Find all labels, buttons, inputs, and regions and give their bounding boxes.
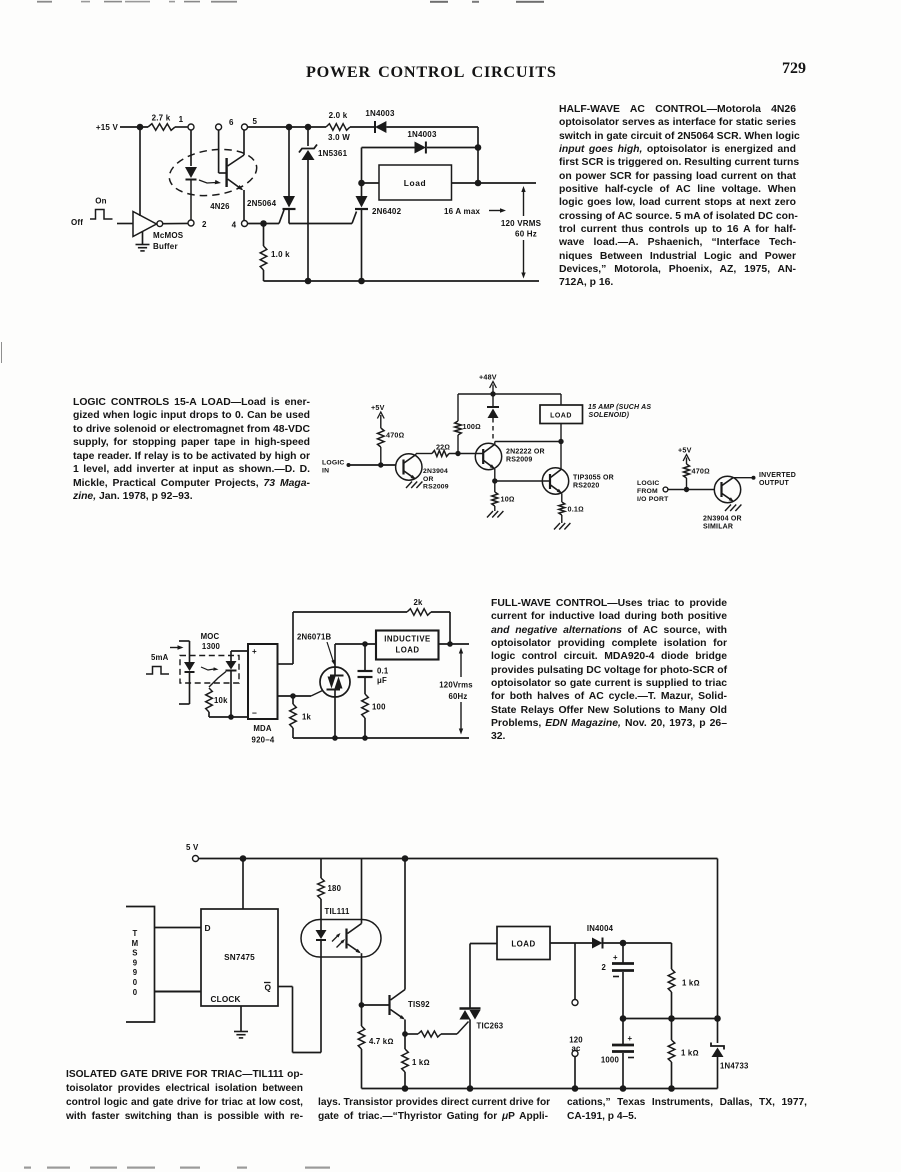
resistor 1.0 k [260,224,290,282]
svg-text:TIC263: TIC263 [477,1022,504,1031]
svg-text:TIS92: TIS92 [408,1000,430,1009]
svg-text:+5V: +5V [371,403,385,412]
svg-text:LOAD: LOAD [395,646,419,655]
120 ac source terminals [572,943,578,1089]
optical arrow MOC1300 [201,667,219,671]
capacitor 2 (filter) [601,943,634,1019]
Q-bar wire path [278,987,321,1053]
svg-text:15 AMP (SUCH AS: 15 AMP (SUCH AS [588,404,651,411]
label 120 VRMS 60 Hz [501,219,542,239]
input bracket wires [179,641,190,704]
wire to diode [350,126,374,128]
svg-text:1000: 1000 [601,1056,620,1065]
node triac bottom rail [332,735,338,741]
svg-text:LOGIC: LOGIC [637,480,660,487]
input terminal dot [347,463,351,467]
svg-text:2N6071B: 2N6071B [297,633,332,642]
svg-text:+: + [613,953,618,962]
photo-SCR of MOC1300 [209,651,237,717]
svg-text:ac: ac [571,1044,581,1053]
svg-text:2.7 k: 2.7 k [152,114,171,123]
label 5mA [151,653,169,662]
wire load node to TIP3055 collector [560,442,562,470]
svg-text:−: − [252,708,257,718]
label TIL111 [325,907,351,916]
svg-text:2N3904 OR: 2N3904 OR [703,516,742,523]
TIL111 package outline [301,920,381,958]
pin 2 terminal of 4N26 [188,220,207,229]
node bottom rail TIC263 [467,1085,474,1092]
wire MDA lower output to triac gate [278,691,323,697]
svg-text:LOAD: LOAD [511,940,535,949]
clamp diode at +48V [487,394,499,442]
label 120 ac [569,1036,583,1054]
phototransistor TIL111 [347,924,362,954]
node 10 ohm junction [492,478,497,483]
pin 6 terminal (base) [216,118,234,130]
wire 2N2222 collector to load node [495,441,561,443]
wire TIS92 emitter down [404,1020,406,1035]
label Off [71,218,83,227]
node bottom rail 2N6402 cathode [358,278,365,285]
label LOGIC IN [322,460,345,475]
svg-text:2N3904: 2N3904 [423,468,448,475]
node 470 ohm junction [378,462,383,467]
resistor 470 ohm (inverter stage) [684,464,710,490]
resistor 1 kohm (TIS92 emitter) [402,1034,430,1089]
svg-text:OUTPUT: OUTPUT [759,480,790,487]
label 2N6071B with pointer [297,633,335,666]
svg-text:FROM: FROM [637,488,658,495]
svg-text:RS2020: RS2020 [573,483,600,490]
node bottom rail cap1000 [620,1085,627,1092]
resistor 1 kohm (upper right) [668,969,699,1019]
optical coupling arrow [199,180,221,184]
label +15 V supply [96,123,119,132]
svg-text:4: 4 [232,221,237,230]
node 100 ohm junction [455,451,460,456]
svg-text:120 VRMS: 120 VRMS [501,219,542,228]
svg-text:McMOS: McMOS [153,231,184,240]
wire emitter down [361,953,363,1005]
wire pin4 to gate node [248,223,280,225]
bottom rail circuit1 [264,280,540,282]
wire 10k to MDA minus [209,716,248,718]
scan artifact dashes top edge [0,0,901,8]
text block: ISOLATED GATE DRIVE col 2 [318,1096,548,1124]
wire SCR anode to MDA plus [231,650,248,652]
label TIC263 [477,1022,504,1031]
svg-text:5 V: 5 V [186,843,199,852]
svg-text:CLOCK: CLOCK [211,995,241,1004]
dashed package ellipse 4N26 [166,144,259,201]
svg-text:1N4733: 1N4733 [720,1062,749,1071]
svg-text:+5V: +5V [678,446,692,455]
resistor 4.7 kohm [358,1005,393,1089]
label MOC 1300 [201,632,221,651]
scan artifact dashes bottom edge [0,1165,901,1172]
text block: ISOLATED GATE DRIVE col 1 [66,1068,303,1124]
SCR 2N6402 [355,180,402,281]
label TIP3055 OR RS2020 [573,475,614,490]
svg-text:9: 9 [133,968,138,977]
svg-text:Load: Load [404,178,426,188]
node top rail (2N5064 anode) [286,124,293,131]
svg-text:INDUCTIVE: INDUCTIVE [384,635,431,644]
svg-text:2N2222 OR: 2N2222 OR [506,449,545,456]
svg-text:SIMILAR: SIMILAR [703,524,733,531]
5V terminal [193,856,199,862]
svg-text:180: 180 [328,884,342,893]
node pin4 / 1k junction [260,220,267,227]
resistor 1 kohm (lower right) [668,1019,698,1089]
LED of optoisolator 4N26 [185,167,197,220]
node bottom rail zener [305,278,312,285]
svg-text:+48V: +48V [479,373,497,382]
page header title [306,63,552,82]
wire to TIS92 base [362,1004,390,1006]
svg-text:+15 V: +15 V [96,123,119,132]
node diode cathode [620,940,627,947]
label 1N4733 [720,1062,749,1071]
svg-text:3.0 W: 3.0 W [328,133,350,142]
svg-text:T: T [133,929,138,938]
resistor 100 ohm [455,394,481,454]
node mid wire zener [714,1015,721,1022]
mid horizontal wire [623,1018,718,1020]
LED of TIL111 [316,920,327,1053]
svg-text:1.0 k: 1.0 k [271,250,290,259]
text block: ISOLATED GATE DRIVE col 3 [567,1096,807,1124]
svg-text:+: + [628,1034,633,1043]
transistor TIS92 [390,990,406,1020]
svg-text:16 A max: 16 A max [444,207,480,216]
wire top rail pin5 to resistor [248,126,327,128]
inverter output bubble [157,221,163,227]
label MDA 920-4 [252,724,275,745]
svg-text:Q: Q [265,983,272,993]
svg-text:100Ω: 100Ω [463,422,481,431]
diode IN4004 [587,924,623,949]
input current arrow [170,645,184,649]
svg-text:LOAD: LOAD [550,413,572,420]
node 2N6402 anode / load left [358,180,365,187]
svg-text:5mA: 5mA [151,653,169,662]
node mid wire cap [620,1015,627,1022]
svg-text:0: 0 [133,988,138,997]
diode 1N4003 (top, pointing left) [365,109,395,133]
resistor 180 [318,859,342,920]
page number 729 [782,60,806,78]
capacitor 1000 (filter) [601,1019,634,1089]
bottom rail circuit4 [362,1088,718,1090]
resistor 22 ohm [432,443,450,457]
text block: FULL-WAVE CONTROL description [491,597,727,744]
wire TIS92 collector to rail [404,859,406,990]
wire anode node to load [362,182,380,184]
transistor 2N3904 (inverter) [714,476,740,502]
wire +15V to resistor [120,126,148,128]
node bottom rail 1k lower [668,1085,675,1092]
SN7475 latch box [201,909,278,1006]
node photo-SCR cathode [228,714,234,720]
resistor 2.7 k [148,114,175,131]
Load box [379,165,452,200]
ground below SN7475 [234,1006,248,1038]
label 16 A max with arrow [444,207,506,216]
resistor 0.1 ohm with ground [554,493,584,529]
node bottom rail 1k [402,1085,409,1092]
node rail TIS92 collector [402,855,409,862]
svg-text:0: 0 [133,978,138,987]
wire TIC263 to LOAD [470,943,497,945]
wire pin1 to LED anode [190,130,192,166]
wire 2N2222 emitter to base TIP3055 [495,469,550,481]
wire 22ohm to 2N2222 base [449,453,483,455]
LOAD box (relay) [540,405,583,424]
svg-text:2N6402: 2N6402 [372,207,402,216]
node base junction [684,487,689,492]
svg-text:RS2009: RS2009 [423,484,449,491]
INDUCTIVE LOAD box [376,631,439,660]
svg-text:1N4003: 1N4003 [365,109,395,118]
label INVERTED OUTPUT [759,472,796,487]
gate resistor to TIC263 [405,1022,469,1038]
node mid wire 1k [668,1015,675,1022]
svg-text:S: S [132,949,137,958]
node emitter/1k junction [402,1031,408,1037]
wire +48 rail [458,393,561,395]
diode 1N4003 (second, pointing right) [362,130,479,180]
wire 2k to load right [431,612,450,644]
label Q-bar output [264,983,272,993]
label TMS9900 vertical [132,929,139,997]
pin 4 terminal (emitter) [232,221,248,230]
triac 2N6071B [320,644,350,738]
node triac MT2 / load wire [335,641,376,647]
node junction +15V rail [137,124,144,131]
LOAD box circuit4 [497,927,550,960]
node load right [475,180,482,187]
label McMOS Buffer [153,231,184,251]
MDA 920-4 bridge box [248,644,278,719]
light arrows TIL111 [332,933,345,948]
label 5 V [186,843,199,852]
svg-text:1300: 1300 [202,642,221,651]
svg-text:2: 2 [202,220,207,229]
wire input to buffer [117,223,133,225]
resistor 10 ohm with ground [487,481,515,518]
svg-text:+: + [252,647,257,656]
svg-text:On: On [95,197,107,206]
triac TIC263 [460,944,481,1089]
transistor 2N2222 Q2 [475,442,501,470]
SCR 2N5064 [247,127,296,224]
label 120Vrms 60Hz [439,681,473,702]
node 1N4003 branch [475,144,482,151]
svg-text:9: 9 [133,958,138,967]
svg-text:10Ω: 10Ω [501,495,515,504]
LED of MOC1300 [184,662,195,672]
wire TMS9900 to D input [155,927,202,929]
node 1k gate junction [290,693,296,699]
svg-text:TIL111: TIL111 [325,907,351,916]
zener 1N4733 [711,1043,724,1089]
svg-text:SOLENOID): SOLENOID) [589,412,630,419]
svg-text:4.7 kΩ: 4.7 kΩ [369,1037,394,1046]
pin 5 terminal (collector) [242,117,258,130]
node +48V rail [490,391,495,396]
svg-text:SN7475: SN7475 [224,953,255,962]
svg-text:470Ω: 470Ω [386,431,404,440]
svg-text:INVERTED: INVERTED [759,472,796,479]
label 2N2222 OR RS2009 [506,449,545,464]
label 4N26 [210,202,230,211]
svg-text:2N5064: 2N5064 [247,199,277,208]
svg-text:470Ω: 470Ω [692,467,710,476]
text block: HALF-WAVE AC CONTROL description [559,103,796,290]
label TIS92 [408,1000,430,1009]
svg-text:100: 100 [372,703,386,712]
wire resistor to pin 1 [175,126,188,128]
measurement arrow 120Vrms [459,648,463,735]
svg-text:TIP3055 OR: TIP3055 OR [573,475,614,482]
node bottom rail 120ac [572,1085,579,1092]
resistor 100 [362,694,386,738]
label LOGIC FROM I/O PORT [637,480,669,503]
label +5V (inverter stage) [678,446,692,465]
top rail circuit4 [199,858,718,860]
resistor 10k [206,688,228,717]
svg-text:D: D [205,923,211,933]
svg-text:1N5361: 1N5361 [318,149,348,158]
svg-text:OR: OR [423,476,434,483]
svg-text:I/O PORT: I/O PORT [637,496,669,503]
wire TMS9900 to CLOCK [155,991,202,993]
wire diode to corner [386,127,478,183]
svg-text:IN4004: IN4004 [587,924,614,933]
svg-text:2.0 k: 2.0 k [329,111,348,120]
svg-text:10k: 10k [214,696,228,705]
label 2N3904 OR RS2009 [423,468,449,491]
svg-text:1 kΩ: 1 kΩ [682,979,700,988]
svg-text:MOC: MOC [201,632,220,641]
input terminal (I/O port) [663,487,668,492]
svg-text:920−4: 920−4 [252,736,275,745]
wire load right output [439,641,470,647]
wire bubble to pin 2 [163,222,188,224]
svg-text:1 kΩ: 1 kΩ [681,1049,699,1058]
node emitter/4.7k junction [359,1002,365,1008]
resistor 2.0 k 3.0 W [326,111,350,142]
svg-text:6: 6 [229,118,234,127]
right vertical rail [717,859,719,1044]
transistor TIP3055 Q3 [542,468,568,494]
svg-text:1k: 1k [302,713,312,722]
svg-text:LOGIC: LOGIC [322,460,345,467]
resistor 470 ohm [378,428,405,465]
wire rail down to SN7475 [242,859,244,910]
node rail to SN7475 [240,855,247,862]
wire 2N5064 cathode to 2N6402 gate [289,212,357,224]
resistor 2k [407,598,431,615]
svg-text:1 kΩ: 1 kΩ [412,1058,430,1067]
svg-text:M: M [132,939,139,948]
label 2N3904 OR SIMILAR [703,516,742,531]
pulse waveform symbol On/Off [90,210,113,220]
svg-text:MDA: MDA [253,724,272,733]
chassis ground 2N3904 emitter [406,482,422,489]
wire MDA top output to 2k rail [278,612,408,664]
bottom rail circuit3 [293,737,469,739]
svg-text:22Ω: 22Ω [436,443,450,452]
svg-text:1N4003: 1N4003 [407,130,437,139]
svg-text:RS2009: RS2009 [506,457,533,464]
dashed package box MOC1300 [180,656,239,684]
svg-text:60Hz: 60Hz [448,692,467,701]
wire +15V rail down to buffer [139,127,141,216]
wire logic in to base [349,464,397,466]
wire LOAD right to diode [550,942,592,944]
wire collector to rail [361,859,363,924]
svg-text:Buffer: Buffer [153,242,178,251]
node cap bottom rail [362,735,368,741]
label +5V supply arrow [371,403,385,428]
svg-text:4N26: 4N26 [210,202,230,211]
node top rail (zener) [305,124,312,131]
label On [95,197,107,206]
pulse waveform 5mA input [146,667,169,675]
wire load bottom [560,424,562,442]
scan artifact left edge line [1,342,2,363]
wire to 2N3904 base [668,489,715,491]
svg-text:2: 2 [601,963,606,972]
svg-text:5: 5 [253,117,258,126]
wire collector to inverted output [733,476,756,480]
svg-text:0.1Ω: 0.1Ω [568,505,584,514]
svg-text:0.1: 0.1 [377,667,389,676]
TMS9900 box (open left) [126,907,155,1023]
measurement arrow 120 VRMS [521,186,525,279]
phototransistor of 4N26 [227,130,244,220]
node load bottom [558,439,563,444]
svg-text:IN: IN [322,468,329,475]
svg-text:60 Hz: 60 Hz [515,230,537,239]
text block: LOGIC CONTROLS 15-A LOAD description [73,396,310,504]
ground below buffer [136,231,150,251]
chassis ground (inverter emitter) [725,505,741,512]
transistor 2N3904 Q1 [396,454,422,480]
pin 1 terminal of 4N26 [179,115,194,130]
label 15 AMP (SUCH AS SOLENOID) [588,404,651,419]
svg-text:μF: μF [377,676,387,685]
wire pin6 to base [219,130,226,173]
wire collector to 22 ohm [416,454,432,455]
capacitor 0.1 uF [358,644,389,694]
McMOS buffer inverter [133,212,157,237]
svg-text:120Vrms: 120Vrms [439,681,473,690]
svg-text:1: 1 [179,115,184,124]
resistor 1k [290,696,312,738]
svg-text:Off: Off [71,218,83,227]
label +48V supply arrow [479,373,497,395]
wire load right to output [452,182,537,184]
zener 1N5361 [299,127,348,281]
wire load top to rail [560,394,562,405]
svg-text:2k: 2k [413,598,423,607]
wire node to 1k top branch [623,943,672,969]
